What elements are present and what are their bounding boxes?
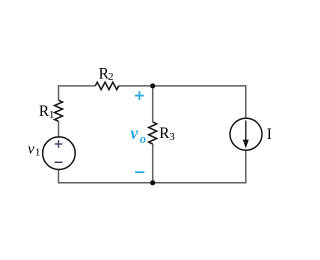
wire top-left segment bbox=[59, 86, 96, 100]
voltage source v1 circle bbox=[43, 137, 76, 170]
current source I arrow bbox=[243, 121, 249, 149]
current source I circle bbox=[230, 118, 262, 150]
svg-text:2: 2 bbox=[108, 71, 114, 83]
vo polarity minus (cyan) bbox=[135, 171, 144, 173]
resistor R2 zigzag bbox=[95, 82, 118, 89]
voltage source v1 plus sign bbox=[55, 140, 63, 148]
resistor R3 zigzag bbox=[149, 122, 157, 144]
node B (bottom junction dot) bbox=[150, 180, 155, 185]
svg-text:1: 1 bbox=[49, 109, 55, 121]
svg-text:v: v bbox=[28, 142, 35, 158]
wire middle bottom (R3 to node) bbox=[152, 144, 154, 183]
svg-text:1: 1 bbox=[35, 147, 41, 159]
wire top-right segment bbox=[119, 86, 246, 118]
svg-text:I: I bbox=[267, 126, 272, 143]
wire v1 to bottom bbox=[59, 170, 153, 183]
resistor R1 zigzag bbox=[55, 100, 63, 121]
wire middle top (node to R3) bbox=[152, 86, 154, 122]
voltage source v1 minus sign bbox=[55, 161, 63, 163]
svg-text:3: 3 bbox=[169, 131, 175, 143]
wire bottom-right segment bbox=[153, 151, 246, 183]
wire left R1 to v1 bbox=[58, 121, 60, 137]
vo polarity plus (cyan) bbox=[135, 91, 144, 100]
node A (top junction dot) bbox=[150, 83, 155, 88]
svg-text:o: o bbox=[140, 132, 146, 146]
svg-text:v: v bbox=[130, 123, 138, 143]
